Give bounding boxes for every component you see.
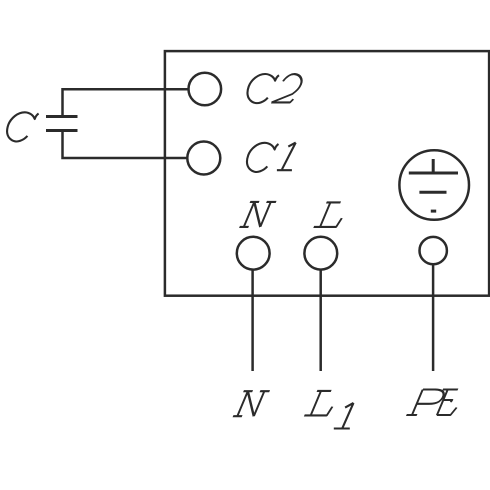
terminal N — [237, 237, 270, 270]
ground symbol circle — [399, 150, 469, 220]
label N (terminal) — [240, 202, 277, 227]
label PE (lead wire) — [406, 390, 464, 416]
label L (terminal) — [314, 202, 349, 227]
wire capacitor bottom to C1 — [63, 131, 188, 159]
terminal L — [304, 237, 337, 270]
label C (capacitor value) — [7, 112, 38, 141]
terminal C2 — [189, 73, 222, 106]
wire PE down — [432, 264, 435, 371]
label C1 — [247, 143, 278, 172]
label L1 (lead wire) — [304, 391, 339, 416]
wire L down — [319, 270, 322, 371]
wire capacitor top to C2 — [63, 89, 189, 116]
label N (lead wire) — [233, 391, 270, 416]
terminal PE — [420, 237, 447, 264]
label L1 subscript 1 — [334, 403, 354, 429]
device outline box — [165, 51, 489, 296]
label C1 digit 1 — [277, 143, 296, 171]
capacitor C plates — [46, 117, 78, 131]
terminal C1 — [187, 142, 220, 175]
label C2 — [248, 74, 306, 103]
ground symbol strokes — [409, 159, 458, 211]
wire N down — [251, 270, 254, 371]
